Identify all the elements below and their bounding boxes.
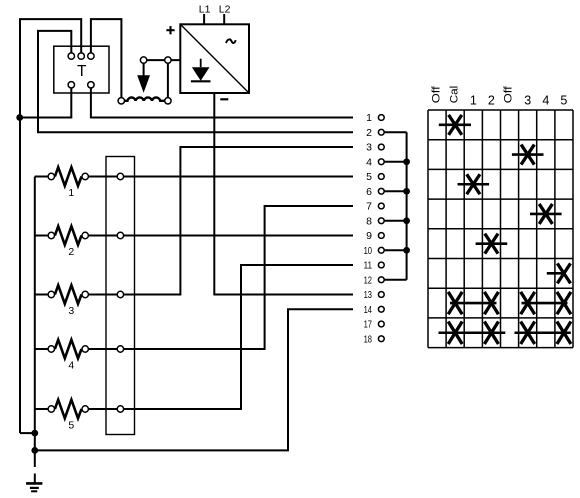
svg-text:2: 2 bbox=[488, 94, 495, 108]
svg-text:Off: Off bbox=[430, 85, 442, 103]
column header 1 bbox=[470, 94, 477, 108]
wire: transformer bottom-right terminal to terminal 1 bbox=[91, 88, 353, 118]
junction node terminal 6 bus bbox=[403, 188, 410, 195]
svg-text:8: 8 bbox=[366, 215, 372, 227]
svg-text:14: 14 bbox=[364, 304, 373, 316]
wire: inner left loop (transformer top-left terminal around to terminal 2) bbox=[38, 31, 353, 132]
svg-text:5: 5 bbox=[560, 94, 567, 108]
wire: resistor 5 output up to terminal 11 bbox=[88, 265, 353, 409]
wire: rectifier minus output down to terminal 13 bbox=[214, 93, 353, 295]
svg-text:Off: Off bbox=[503, 85, 515, 103]
rectifier U1 bbox=[180, 24, 249, 93]
svg-text:12: 12 bbox=[364, 274, 373, 286]
svg-text:13: 13 bbox=[364, 289, 373, 301]
switch contact bank box bbox=[106, 157, 135, 435]
wire: transformer bottom-left terminal to left node bbox=[20, 88, 72, 118]
resistor R2 bbox=[48, 226, 88, 258]
svg-text:5: 5 bbox=[68, 419, 74, 431]
svg-text:4: 4 bbox=[366, 156, 372, 168]
terminal 4 bbox=[366, 156, 384, 168]
resistor R3 bbox=[48, 285, 88, 317]
terminal 5 bbox=[366, 171, 384, 183]
terminal 3 bbox=[366, 142, 384, 154]
pin L2 bbox=[219, 3, 231, 24]
junction node terminal 10 bus bbox=[403, 247, 410, 254]
column header Cal bbox=[448, 86, 460, 104]
svg-text:4: 4 bbox=[542, 94, 549, 108]
junction node bus bottom bbox=[31, 447, 38, 454]
svg-text:T: T bbox=[77, 63, 87, 80]
svg-text:7: 7 bbox=[366, 201, 372, 213]
terminal 14 bbox=[364, 304, 385, 316]
column header 5 bbox=[560, 94, 567, 108]
rectifier plus label bbox=[166, 26, 174, 34]
wire: even-terminal common bus bbox=[384, 132, 406, 280]
wire: outer left vertical joins resistor bus bbox=[20, 432, 35, 434]
column header Off (position 1) bbox=[430, 85, 442, 103]
svg-text:10: 10 bbox=[364, 245, 373, 257]
transformer T bbox=[54, 46, 109, 93]
switch position table grid bbox=[428, 110, 573, 348]
junction node bus top bbox=[31, 430, 38, 437]
terminal 18 bbox=[364, 333, 385, 345]
contact mark row 3 pos 1 bbox=[458, 174, 490, 194]
svg-text:11: 11 bbox=[364, 260, 373, 272]
svg-text:L2: L2 bbox=[219, 3, 231, 15]
junction node left bbox=[16, 114, 23, 121]
contact mark row 4 pos 4 bbox=[530, 204, 562, 224]
terminal 8 bbox=[366, 215, 384, 227]
wire: resistor 3 left lead bbox=[35, 294, 48, 296]
terminal 10 bbox=[364, 245, 385, 257]
wire: resistor 5 left lead bbox=[35, 408, 48, 410]
resistor R5 bbox=[48, 400, 88, 432]
rectifier AC symbol bbox=[226, 39, 236, 43]
svg-text:9: 9 bbox=[366, 230, 372, 242]
wire: resistor 2 left lead bbox=[35, 235, 48, 237]
svg-text:1: 1 bbox=[366, 112, 372, 124]
svg-text:6: 6 bbox=[366, 186, 372, 198]
svg-text:1: 1 bbox=[470, 94, 477, 108]
contact marks row 7 bbox=[448, 292, 571, 314]
terminal 2 bbox=[366, 127, 384, 139]
contact mark row 1 Cal bbox=[439, 115, 471, 135]
column header 4 bbox=[542, 94, 549, 108]
pin L1 bbox=[199, 3, 211, 24]
contact marks row 8 bbox=[439, 322, 571, 344]
terminal 12 bbox=[364, 274, 385, 286]
terminal 11 bbox=[364, 260, 385, 272]
svg-text:3: 3 bbox=[524, 94, 531, 108]
svg-text:Cal: Cal bbox=[448, 86, 460, 104]
junction node terminal 8 bus bbox=[403, 217, 410, 224]
ground bbox=[26, 474, 42, 492]
svg-text:4: 4 bbox=[68, 359, 74, 371]
terminal 6 bbox=[366, 186, 384, 198]
wire: ground bus to terminal 14 bbox=[35, 309, 353, 450]
svg-text:2: 2 bbox=[68, 246, 74, 258]
svg-text:3: 3 bbox=[366, 142, 372, 154]
wire: resistor 1 left lead bbox=[35, 176, 48, 178]
rectifier minus label bbox=[220, 98, 228, 100]
contact mark row 6 pos 5 bbox=[547, 263, 571, 283]
wire: resistor 2 output to terminal 9 bbox=[88, 235, 353, 237]
wire: resistor 4 output up to terminal 7 bbox=[88, 206, 353, 349]
wire: ground stem bbox=[34, 450, 36, 467]
junction node terminal 4 bus bbox=[403, 158, 410, 165]
terminal 17 bbox=[364, 319, 385, 331]
contact mark row 5 pos 2 bbox=[476, 234, 508, 254]
contact mark row 2 pos 3 bbox=[512, 145, 544, 165]
wire: resistor 3 output up to terminal 3 bbox=[88, 147, 353, 295]
wire: transformer top-right terminal to coil left end bbox=[91, 19, 122, 98]
relay coil with plunger arrow bbox=[118, 57, 180, 104]
resistor R4 bbox=[48, 340, 88, 372]
svg-text:2: 2 bbox=[366, 127, 372, 139]
terminal 7 bbox=[366, 201, 384, 213]
wire: left resistor bus bbox=[34, 177, 36, 451]
resistor R1 bbox=[48, 167, 88, 199]
terminal 9 bbox=[366, 230, 384, 242]
wire: resistor 4 left lead bbox=[35, 348, 48, 350]
wire: outer left loop (transformer top-middle terminal to left bus bottom) bbox=[20, 19, 81, 433]
svg-text:3: 3 bbox=[68, 305, 74, 317]
column header Off (position 2) bbox=[503, 85, 515, 103]
column header 2 bbox=[488, 94, 495, 108]
terminal 13 bbox=[364, 289, 385, 301]
terminal 1 bbox=[366, 112, 384, 124]
rectifier diode symbol bbox=[191, 59, 211, 82]
wire: resistor 1 output to terminal 5 bbox=[88, 176, 353, 178]
svg-text:18: 18 bbox=[364, 333, 373, 345]
column header 3 bbox=[524, 94, 531, 108]
svg-text:5: 5 bbox=[366, 171, 372, 183]
svg-text:L1: L1 bbox=[199, 3, 211, 15]
svg-text:17: 17 bbox=[364, 319, 373, 331]
svg-text:1: 1 bbox=[68, 187, 74, 199]
